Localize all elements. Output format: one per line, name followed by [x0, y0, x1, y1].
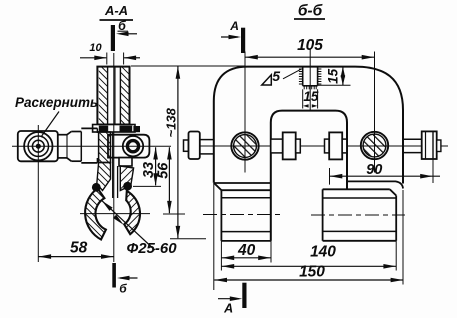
title A-A	[100, 3, 134, 20]
main horizontal centerline	[196, 145, 448, 147]
dimension 15 slot depth	[318, 67, 351, 86]
step piece under pin block	[119, 158, 132, 166]
middle left stud	[271, 132, 301, 159]
label Raskernit with leader	[15, 95, 98, 137]
svg-text:150: 150	[299, 263, 325, 280]
middle right stud	[325, 132, 347, 159]
section mark A bottom	[218, 283, 247, 316]
column flange with seal pads	[93, 125, 135, 133]
left chamfer	[214, 183, 222, 190]
svg-text:40: 40	[237, 242, 256, 259]
dimension 33	[133, 147, 161, 186]
body bottom edge right segment	[347, 181, 403, 188]
inner opening	[271, 111, 347, 241]
section mark A top	[221, 19, 245, 53]
spindle neck	[58, 135, 67, 158]
svg-text:Ф25-60: Ф25-60	[127, 240, 178, 257]
dimension 10	[80, 42, 140, 65]
svg-text:15: 15	[325, 68, 340, 84]
pivot pin dots	[92, 183, 101, 192]
dimension 105	[245, 37, 375, 60]
svg-text:А: А	[223, 301, 233, 315]
right shaft circle (hatched section)	[361, 132, 388, 159]
svg-text:56: 56	[155, 162, 171, 179]
column vertical centerline	[113, 53, 115, 262]
svg-text:15: 15	[303, 89, 319, 104]
right leg	[311, 189, 405, 241]
dimension 150	[214, 183, 404, 290]
svg-text:10: 10	[89, 42, 102, 54]
left jaw mount (hatched wedge)	[97, 163, 111, 191]
svg-text:А-А: А-А	[104, 3, 128, 18]
svg-text:140: 140	[310, 244, 336, 261]
title B-B	[294, 2, 325, 19]
left shaft circle (hatched section)	[231, 132, 258, 159]
section mark B bottom	[112, 263, 137, 296]
svg-text:А: А	[229, 19, 239, 33]
dimension 15 slot width	[303, 89, 319, 109]
svg-text:58: 58	[70, 240, 88, 257]
svg-text:90: 90	[366, 162, 382, 178]
spindle horizontal centerline	[12, 145, 171, 147]
right shaft circle centerline vertical	[374, 52, 376, 173]
left leg	[203, 190, 283, 241]
right outside bolt	[403, 131, 441, 159]
svg-text:5: 5	[272, 68, 280, 84]
rack rod lower part	[113, 132, 118, 198]
dimension 58	[38, 240, 113, 259]
svg-text:105: 105	[297, 37, 323, 54]
pin block (right head of spindle)	[108, 135, 149, 158]
right jaw (hatched crescent)	[124, 191, 140, 234]
svg-text:б: б	[119, 282, 127, 296]
clamp body outline	[214, 67, 403, 184]
small boss above pin block	[133, 126, 140, 132]
spindle cylinder	[71, 132, 81, 162]
svg-text:~138: ~138	[163, 107, 178, 137]
right leg chamfer	[390, 189, 396, 195]
lower hatched bar section	[99, 132, 111, 163]
section mark B top	[111, 19, 137, 51]
bolt head (left end of spindle)	[18, 131, 58, 161]
spindle cone	[67, 132, 71, 162]
dimension F25-60 with diameter leader	[102, 201, 177, 257]
jaw horizontal centerline	[80, 213, 150, 215]
left outside bolt	[184, 132, 214, 160]
rack rod inside column	[114, 67, 116, 125]
right jaw mount (hatched wedge)	[120, 166, 133, 191]
dimension 140	[221, 241, 396, 271]
left jaw (hatched crescent)	[85, 188, 106, 239]
surface finish mark 5	[262, 68, 301, 85]
column (vertical holder bar), hatched walls	[97, 67, 129, 125]
left shaft circle centerline vertical	[244, 52, 246, 173]
dimension 90	[330, 160, 441, 185]
svg-text:Раскернить: Раскернить	[15, 95, 98, 110]
bolt head vertical centerline / extension	[37, 125, 39, 262]
dimension ~138	[131, 66, 246, 239]
body bottom edge left segment	[214, 182, 271, 184]
threaded slot in top face	[299, 49, 322, 111]
spindle big cylinder	[81, 128, 97, 163]
dimension 40	[221, 241, 271, 271]
svg-text:б-б: б-б	[298, 2, 323, 19]
dimension 56	[155, 147, 185, 214]
